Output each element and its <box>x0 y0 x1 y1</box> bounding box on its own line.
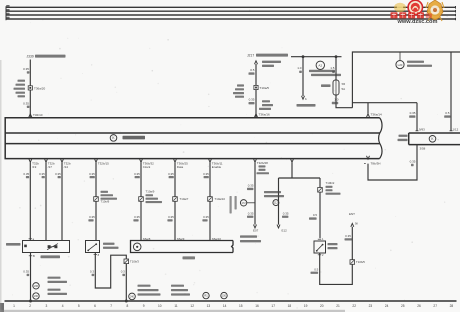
svg-text:8: 8 <box>127 304 129 308</box>
pin T32b/26 <box>291 159 294 162</box>
pin T32b/15 <box>95 159 98 162</box>
svg-text:T10s/9: T10s/9 <box>101 200 110 204</box>
wire to ignition switch terminal b <box>302 57 304 96</box>
svg-text:0.35: 0.35 <box>203 215 209 219</box>
svg-text:0.35: 0.35 <box>345 234 351 238</box>
see diagram 13 note <box>262 100 270 102</box>
multi-function display vertical note <box>235 196 237 210</box>
svg-text:T36a/14: T36a/14 <box>371 113 382 117</box>
svg-text:1/12: 1/12 <box>453 127 459 131</box>
svg-text:3: 3 <box>46 304 48 308</box>
inline connector on Clock wire <box>139 197 144 202</box>
label ignition switch <box>297 104 316 107</box>
wire net from J217 <box>291 56 342 58</box>
label exterior lamp monitor <box>328 243 338 245</box>
arrow to A/C ECU E07 <box>254 225 257 228</box>
ground wire with loop via T10b/3 <box>94 254 97 256</box>
wire T32b/15 to washer contact <box>95 162 97 240</box>
bus bar 30 <box>6 6 456 8</box>
svg-text:1: 1 <box>13 304 15 308</box>
svg-text:0.35: 0.35 <box>283 211 289 215</box>
junction circle 472 <box>247 202 255 204</box>
svg-text:B: B <box>33 254 35 258</box>
svg-text:E07: E07 <box>253 229 259 233</box>
svg-text:28: 28 <box>450 304 454 308</box>
svg-text:/17: /17 <box>48 165 53 169</box>
wire Data to radio <box>174 162 176 240</box>
svg-text:3/58: 3/58 <box>420 146 426 150</box>
svg-text:25: 25 <box>401 304 405 308</box>
junction node <box>302 55 305 58</box>
svg-text:1.5: 1.5 <box>330 66 335 70</box>
supply wire top right <box>352 52 460 108</box>
svg-text:T10b/5: T10b/5 <box>356 260 365 264</box>
svg-text:Enable: Enable <box>212 165 222 169</box>
charge indicator lamp box K <box>409 133 460 145</box>
wire 3/58 to T8b/3H <box>368 148 417 180</box>
bus bar 31 <box>6 18 456 20</box>
svg-text:T36a/16: T36a/16 <box>259 112 270 116</box>
svg-text:14: 14 <box>223 304 227 308</box>
svg-text:Data: Data <box>177 165 184 169</box>
svg-text:T10a/5: T10a/5 <box>260 86 270 90</box>
svg-text:23: 23 <box>369 304 373 308</box>
svg-text:0.3: 0.3 <box>121 270 125 274</box>
junction on baseline <box>125 300 128 303</box>
dash panel insert inner band <box>5 132 380 134</box>
exterior lamp monitor box <box>314 241 326 253</box>
wire fuse to node <box>336 95 352 108</box>
coil lamp L20 <box>399 52 401 60</box>
svg-text:19: 19 <box>304 304 308 308</box>
torn continuation edge <box>379 118 382 159</box>
washer fluid warning contact box <box>86 241 100 253</box>
svg-text:T10a/7: T10a/7 <box>180 197 189 201</box>
svg-text:0.3: 0.3 <box>90 270 94 274</box>
svg-text:0.35: 0.35 <box>410 111 416 115</box>
pin T32b/17 <box>45 159 48 162</box>
svg-text:E12: E12 <box>282 229 288 233</box>
svg-text:0.35: 0.35 <box>248 211 254 215</box>
svg-text:T36a/20: T36a/20 <box>34 86 45 90</box>
svg-text:472: 472 <box>242 202 247 205</box>
svg-text:9: 9 <box>143 304 145 308</box>
svg-text:236: 236 <box>34 285 39 288</box>
svg-text:5: 5 <box>78 304 80 308</box>
pin ticks on box <box>29 238 32 240</box>
junction on baseline <box>29 300 32 303</box>
svg-text:10: 10 <box>158 304 162 308</box>
bus bar X <box>6 14 456 16</box>
inline connector T36a/20 <box>28 86 32 90</box>
inline connector T10b/5 <box>350 260 355 265</box>
inline connector T10b/3 <box>124 259 129 264</box>
svg-text:0.35: 0.35 <box>23 67 29 71</box>
svg-text:18: 18 <box>288 304 292 308</box>
svg-text:T32b/15: T32b/15 <box>98 162 109 166</box>
svg-text:0.35: 0.35 <box>89 215 95 219</box>
inline connector T10b/2 <box>318 188 323 193</box>
svg-text:N6a/10: N6a/10 <box>212 237 222 241</box>
svg-text:www.dzsc.com: www.dzsc.com <box>397 19 438 25</box>
svg-text:0.35: 0.35 <box>134 215 140 219</box>
wire T32b/14 to function switch <box>61 162 63 240</box>
arrow E12 <box>277 225 280 228</box>
svg-text:Clock: Clock <box>143 165 151 169</box>
svg-text:4: 4 <box>62 304 64 308</box>
svg-text:L20: L20 <box>398 63 403 67</box>
svg-text:0.35: 0.35 <box>410 159 416 163</box>
svg-text:112: 112 <box>274 202 279 205</box>
scan smudge bottom left <box>0 303 4 312</box>
wire to pin 1/12 <box>450 52 452 131</box>
svg-text:0.5: 0.5 <box>313 213 317 217</box>
ground designation 236 <box>33 283 39 289</box>
svg-text:0.35: 0.35 <box>248 184 254 188</box>
svg-text:A2: A2 <box>318 64 322 68</box>
distribution wire to cluster and warning box <box>352 102 417 104</box>
pin T36b/25Data <box>174 159 177 162</box>
label charge indicator <box>399 135 408 137</box>
instrument cluster unit box <box>5 118 379 159</box>
svg-text:0.5: 0.5 <box>314 267 318 271</box>
svg-text:20: 20 <box>320 304 324 308</box>
svg-text:2: 2 <box>29 304 31 308</box>
svg-text:0.35: 0.35 <box>249 98 255 102</box>
svg-text:T8b/3H: T8b/3H <box>371 162 381 166</box>
J339 connector description text block <box>18 80 26 82</box>
inline connector on Enable wire <box>208 197 213 202</box>
svg-text:J217: J217 <box>247 54 254 58</box>
svg-text:27: 27 <box>433 304 437 308</box>
wire J339 to T32/10 <box>29 60 31 118</box>
pin T32b/19 <box>29 159 32 162</box>
ground connection notes middle <box>138 285 151 287</box>
label function selector switch <box>41 255 61 258</box>
svg-text:T32b/28: T32b/28 <box>257 161 268 165</box>
self-check system symbol K <box>110 135 117 142</box>
pin T32b/14 <box>61 159 64 162</box>
drop to pin T36a/14 <box>367 103 369 114</box>
drop to pin 9/93 <box>416 103 418 131</box>
inline connector on Data wire <box>173 197 178 202</box>
svg-text:b: b <box>305 97 307 101</box>
svg-text:/19: /19 <box>32 165 37 169</box>
wire to junction 472 <box>254 162 256 224</box>
svg-text:150: 150 <box>222 295 227 298</box>
ground designation 150 <box>221 292 227 298</box>
svg-text:T10a/9: T10a/9 <box>146 190 155 194</box>
label self-check system <box>123 136 146 140</box>
radio symbol circle <box>133 243 141 251</box>
radio box <box>131 241 234 253</box>
lamp symbol K <box>429 136 436 143</box>
svg-text:ENT: ENT <box>349 212 355 216</box>
inline connector T10a/5 <box>254 85 258 89</box>
MFA function selector switch box <box>23 241 70 253</box>
junction circle 112 <box>273 200 279 206</box>
socket note above 112 <box>264 191 281 193</box>
svg-text:0.35: 0.35 <box>203 172 209 176</box>
svg-text:N6a/9: N6a/9 <box>177 237 185 241</box>
diagnostic plug note <box>309 70 335 72</box>
pin T8b/3H <box>367 156 370 159</box>
pin T36b/32Clock <box>140 159 143 162</box>
current track baseline <box>5 300 457 302</box>
svg-text:9/93: 9/93 <box>419 127 425 131</box>
svg-text:230: 230 <box>34 295 39 298</box>
svg-text:12: 12 <box>190 304 194 308</box>
wire J217 down to T36a/16 <box>255 64 257 118</box>
svg-text:R1: R1 <box>204 294 208 298</box>
svg-text:0.35: 0.35 <box>23 270 29 274</box>
wire T32b/17 to function switch <box>45 162 47 240</box>
svg-text:T32/10: T32/10 <box>33 113 43 117</box>
ground designation 230 <box>33 293 39 299</box>
svg-text:7: 7 <box>110 304 112 308</box>
svg-text:0.35: 0.35 <box>89 172 95 176</box>
svg-text:15: 15 <box>239 304 243 308</box>
svg-text:13: 13 <box>207 304 211 308</box>
svg-text:1.0: 1.0 <box>334 97 339 101</box>
label radio <box>183 256 196 259</box>
svg-text:0.35: 0.35 <box>23 172 29 176</box>
bus bar 15 <box>6 10 456 12</box>
connection identifier A2 <box>316 61 324 69</box>
wire Enable to radio <box>209 162 211 240</box>
wire to fuse <box>335 57 337 80</box>
svg-text:24: 24 <box>385 304 389 308</box>
svg-text:0.35: 0.35 <box>23 101 29 105</box>
svg-text:1.0: 1.0 <box>297 66 302 70</box>
svg-text:/14: /14 <box>64 165 69 169</box>
svg-text:S5: S5 <box>342 82 346 86</box>
wire to T10b/2 <box>319 178 321 238</box>
ground designation 240 <box>129 293 136 300</box>
pin T36b/11Enable <box>209 159 212 162</box>
svg-text:6: 6 <box>94 304 96 308</box>
label washer contact <box>103 243 115 245</box>
ground designation R1 <box>203 292 209 298</box>
branch wire <box>279 162 321 178</box>
svg-text:T10a/10: T10a/10 <box>215 197 226 201</box>
svg-text:26: 26 <box>417 304 421 308</box>
svg-text:N6a/8: N6a/8 <box>143 237 151 241</box>
svg-text:T10b/3: T10b/3 <box>130 259 139 263</box>
fuse S5 <box>333 80 339 95</box>
ground wire from switch <box>30 253 32 302</box>
svg-text:11: 11 <box>174 304 178 308</box>
watermark logo dzsc <box>391 0 445 25</box>
svg-text:0.35: 0.35 <box>168 172 174 176</box>
svg-text:T10b/2: T10b/2 <box>326 181 335 185</box>
pin 3/58 below <box>416 145 418 148</box>
svg-text:J339: J339 <box>27 55 34 59</box>
wire loop to T10b/5 and ENT <box>318 254 321 256</box>
ground point notes <box>48 277 61 279</box>
wire T32b/19 to function switch <box>29 162 31 240</box>
pin T32b/28 <box>254 159 257 162</box>
wire Clock to radio <box>140 162 142 240</box>
junction node <box>335 55 338 58</box>
svg-text:16: 16 <box>255 304 259 308</box>
svg-text:0.5: 0.5 <box>250 68 255 72</box>
svg-text:0.35: 0.35 <box>168 215 174 219</box>
svg-text:240: 240 <box>130 296 135 299</box>
svg-text:0.35: 0.35 <box>55 172 61 176</box>
J217 connector description <box>237 84 244 86</box>
pin T32/10 <box>29 114 32 117</box>
note with automatic gearbox <box>262 61 281 63</box>
arrow to net ENT <box>351 223 354 226</box>
svg-text:5A: 5A <box>342 87 346 91</box>
svg-text:0.5: 0.5 <box>445 111 450 115</box>
svg-text:21: 21 <box>336 304 340 308</box>
svg-text:22: 22 <box>352 304 356 308</box>
svg-text:0.35: 0.35 <box>39 172 45 176</box>
inline connector on T32b/15 wire <box>94 197 99 202</box>
svg-text:17: 17 <box>271 304 275 308</box>
svg-text:0.35: 0.35 <box>134 172 140 176</box>
L20 description <box>407 61 424 63</box>
